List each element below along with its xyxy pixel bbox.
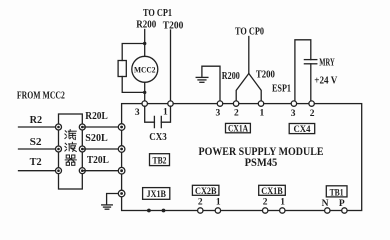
svg-text:1: 1 xyxy=(216,197,221,207)
terminal N (TB1) xyxy=(325,208,330,213)
svg-text:JX1B: JX1B xyxy=(147,190,167,200)
wire resistor top bracket xyxy=(122,44,145,61)
svg-text:TB1: TB1 xyxy=(330,188,344,198)
junction dot bottom xyxy=(143,91,146,94)
filter terminal right 1 xyxy=(79,124,85,130)
filter box 滤波器 xyxy=(59,114,83,189)
svg-text:R200: R200 xyxy=(136,19,156,30)
svg-text:TO CP1: TO CP1 xyxy=(143,8,172,19)
connector label box CX1B xyxy=(259,185,286,197)
terminal 3 (CX4) xyxy=(291,101,296,106)
terminal 2 (CX2B) xyxy=(198,208,203,213)
ground (top, R200) wire xyxy=(202,66,220,101)
wire S20L xyxy=(82,148,121,150)
filter char 器 xyxy=(65,155,76,165)
svg-text:1: 1 xyxy=(260,108,265,118)
svg-text:+24 V: +24 V xyxy=(314,76,338,87)
svg-text:TB2: TB2 xyxy=(153,156,167,166)
wire T200 vertical xyxy=(170,30,172,101)
svg-text:S20L: S20L xyxy=(85,133,108,144)
terminal 3 (CX3 left) xyxy=(142,101,147,106)
wire S2 xyxy=(19,148,59,150)
terminal 1 (CX1B) xyxy=(280,208,285,213)
terminal P (TB1) xyxy=(342,208,347,213)
svg-text:S2: S2 xyxy=(30,137,42,148)
svg-text:R200: R200 xyxy=(222,71,240,82)
contactor coil MCC2 xyxy=(132,56,158,82)
terminal block box TB2 xyxy=(150,154,170,167)
svg-text:ESP1: ESP1 xyxy=(272,84,291,95)
wire T20L xyxy=(82,170,121,172)
svg-text:TO CP0: TO CP0 xyxy=(235,26,264,37)
svg-text:1: 1 xyxy=(163,107,168,117)
svg-text:T200: T200 xyxy=(256,70,275,81)
junction dot JX1B-2 xyxy=(162,209,166,213)
svg-text:3: 3 xyxy=(216,108,221,118)
svg-text:2: 2 xyxy=(263,197,268,207)
junction dot top xyxy=(143,42,146,45)
svg-text:MRY: MRY xyxy=(319,57,335,68)
connector label box CX2B xyxy=(192,185,219,197)
resistor (economizer) xyxy=(118,61,126,77)
terminal 1 (CX3 right) xyxy=(168,101,173,106)
wire R20L xyxy=(82,126,121,128)
filter terminal right 2 xyxy=(79,146,85,152)
svg-text:CX2B: CX2B xyxy=(195,187,217,197)
svg-text:PSM45: PSM45 xyxy=(245,157,278,169)
wire T2 xyxy=(19,170,59,172)
wire TO CP0 Y-branch xyxy=(236,37,261,102)
filter terminal left 3 xyxy=(56,168,62,174)
terminal 2 (CX1B) xyxy=(263,208,268,213)
svg-text:CX1B: CX1B xyxy=(261,187,283,197)
terminal 2 (CX1A) xyxy=(233,101,238,106)
terminal 1 (CX1A) xyxy=(258,101,263,106)
svg-text:2: 2 xyxy=(310,109,315,119)
module terminal R20L (bullseye) xyxy=(118,124,125,131)
junction dot JX1B-1 xyxy=(147,209,151,213)
svg-text:CX4: CX4 xyxy=(294,125,311,135)
connector label box JX1B xyxy=(143,188,170,201)
svg-text:T200: T200 xyxy=(163,20,184,31)
terminal 2 (CX4) xyxy=(309,101,314,106)
module terminal S20L (bullseye) xyxy=(118,146,125,153)
module terminal T20L (bullseye) xyxy=(118,167,125,174)
capacitor MRY wires xyxy=(295,40,311,101)
capacitor MRY xyxy=(304,60,316,64)
terminal 1 (CX2B) xyxy=(215,208,220,213)
wire R200 vertical to MCC2 xyxy=(144,30,146,57)
module box POWER SUPPLY MODULE PSM45 xyxy=(122,104,362,211)
svg-text:R2: R2 xyxy=(30,115,42,126)
ground (top) xyxy=(196,77,208,82)
filter char 滤 xyxy=(65,130,76,140)
filter terminal left 1 xyxy=(56,124,62,130)
connector label box CX4 xyxy=(289,124,315,136)
wire R2 xyxy=(19,126,59,128)
filter char 波 xyxy=(65,142,76,151)
svg-text:R20L: R20L xyxy=(85,111,108,122)
wire to chassis ground xyxy=(107,194,119,205)
svg-text:T20L: T20L xyxy=(87,155,109,166)
terminal 3 (CX1A) xyxy=(217,101,222,106)
svg-text:2: 2 xyxy=(234,108,239,118)
connector label box CX1A xyxy=(226,123,251,134)
svg-text:3: 3 xyxy=(291,109,296,119)
svg-text:FROM MCC2: FROM MCC2 xyxy=(17,90,65,101)
svg-text:CX1A: CX1A xyxy=(228,125,248,135)
svg-text:1: 1 xyxy=(280,197,285,207)
filter terminal left 2 xyxy=(56,146,62,152)
svg-text:2: 2 xyxy=(198,197,203,207)
svg-text:MCC2: MCC2 xyxy=(134,64,156,74)
svg-text:CX3: CX3 xyxy=(149,132,167,143)
svg-text:3: 3 xyxy=(135,108,140,118)
module terminal ground (bullseye) xyxy=(118,190,125,197)
ground (bottom left) xyxy=(102,205,113,209)
wire resistor bottom bracket xyxy=(122,77,145,93)
svg-text:T2: T2 xyxy=(30,157,42,168)
filter terminal right 3 xyxy=(79,168,85,174)
capacitor CX3 xyxy=(145,106,171,127)
wire MCC2 bottom to terminal 3 xyxy=(144,82,146,101)
terminal block box TB1 xyxy=(326,186,347,199)
